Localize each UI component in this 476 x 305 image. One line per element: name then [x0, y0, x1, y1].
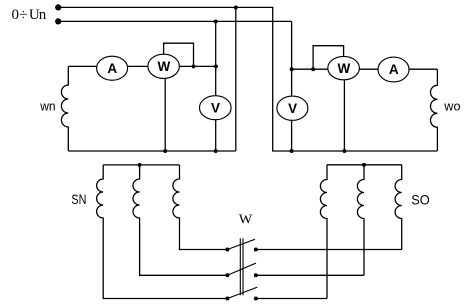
wire switch row 3 right to coil SO-1 — [256, 298, 327, 300]
coil SN-1 with lead to switch row 3 — [97, 165, 228, 299]
svg-text:SO: SO — [411, 191, 430, 207]
junction right bus W2 — [342, 149, 346, 153]
svg-text:SN: SN — [71, 191, 86, 207]
wire switch row 2 right to coil SO-2 — [256, 274, 364, 276]
coil SO-1 with lead down — [320, 165, 327, 299]
wire SN winding top link — [103, 164, 179, 166]
ammeter A2 body — [378, 57, 409, 82]
wire switch row 1 right to coil SO-3 — [256, 249, 402, 251]
wire vertical from line1 junction down to left bus — [235, 7, 237, 151]
switch W linkage bar left — [239, 238, 241, 295]
coil SN-3 with lead to switch row 1 — [173, 165, 228, 250]
wire left bottom bus — [68, 150, 236, 152]
wire wattmeter W2 voltage coil loop — [313, 46, 344, 69]
junction left bus V1 — [214, 149, 218, 153]
wire vertical from line2 end through voltmeter V2 to right bus — [291, 21, 293, 151]
svg-text:V: V — [211, 100, 220, 115]
switch contact right 2 — [254, 273, 258, 277]
wire wattmeter W1 voltage coil loop — [164, 43, 194, 66]
svg-text:W: W — [239, 213, 253, 228]
wire left meter row — [68, 65, 216, 67]
junction left row end — [214, 64, 218, 68]
svg-text:A: A — [389, 62, 399, 77]
junction on line2 — [214, 19, 218, 23]
junction right row start — [290, 67, 294, 71]
svg-text:W: W — [158, 59, 171, 74]
wattmeter W1 body — [148, 54, 180, 78]
switch contact left 1 — [225, 248, 229, 252]
switch W blade pole 1 — [227, 239, 255, 249]
svg-text:wn: wn — [39, 99, 55, 114]
svg-text:W: W — [338, 61, 351, 76]
ammeter A1 body — [97, 56, 128, 80]
wire supply line 2 — [58, 20, 291, 22]
wire right meter row — [292, 68, 438, 70]
switch W linkage bar right — [242, 238, 244, 295]
switch contact right 3 — [254, 297, 258, 301]
svg-text:wo: wo — [443, 98, 460, 113]
wire wattmeter W2 bottom to right bus — [343, 69, 345, 151]
switch contact right 1 — [254, 248, 258, 252]
voltmeter V2 body — [277, 96, 308, 120]
terminal input top — [55, 4, 61, 10]
wattmeter W2 body — [328, 56, 360, 79]
junction on line1 — [234, 5, 238, 9]
wire wattmeter W1 bottom to left bus — [164, 66, 166, 151]
coil SO-3 with lead down — [395, 165, 402, 250]
junction W1 loop to row — [192, 64, 196, 68]
wire SO winding top link — [327, 164, 402, 166]
junction SN link — [138, 163, 142, 167]
junction SO link — [362, 163, 366, 167]
svg-text:A: A — [107, 61, 117, 76]
junction left bus W1 — [163, 149, 167, 153]
coil SN-2 with lead to switch row 2 — [133, 165, 227, 275]
svg-text:V: V — [288, 101, 297, 116]
switch W blade pole 2 — [227, 263, 256, 275]
switch W blade pole 3 — [227, 287, 257, 298]
coil SO-2 with lead down — [357, 165, 364, 275]
coil wo — [430, 69, 437, 151]
wire supply line 1 top rail with right drop and right bottom bus — [58, 7, 437, 151]
coil wn — [61, 66, 68, 151]
svg-text:0÷Un: 0÷Un — [12, 7, 47, 24]
switch contact left 3 — [225, 297, 229, 301]
junction right bus V2 — [290, 149, 294, 153]
junction W2 loop to row — [311, 67, 315, 71]
switch contact left 2 — [225, 273, 229, 277]
wire vertical from line2 junction through voltmeter V1 to left bus — [215, 21, 217, 151]
voltmeter V1 body — [200, 96, 232, 120]
terminal input bottom — [55, 18, 61, 24]
